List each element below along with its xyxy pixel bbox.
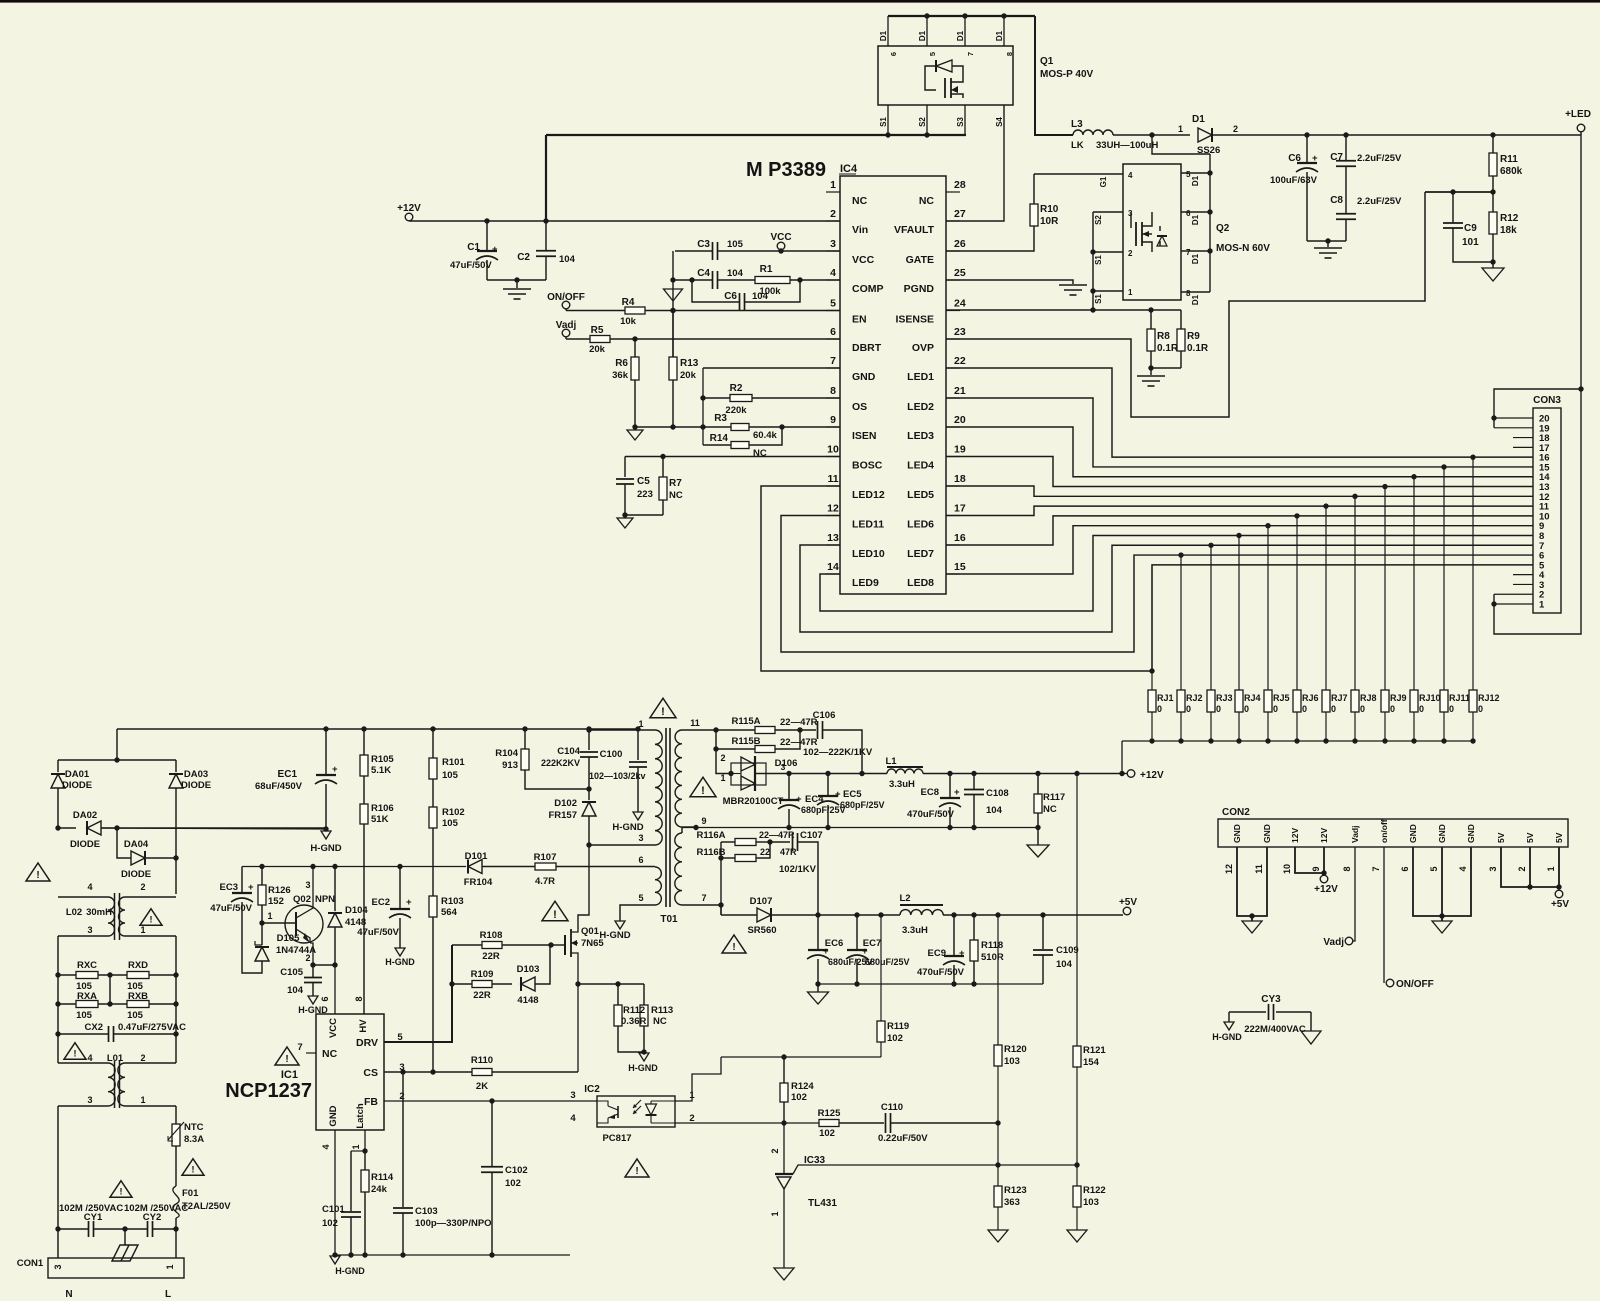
pin 16 LED7 [946, 544, 960, 546]
wire primary return to H-GND [101, 828, 326, 829]
wire CON2 pin 7 on/off [1383, 847, 1385, 983]
ground (CY3) [1301, 1031, 1321, 1044]
svg-text:NTC: NTC [184, 1122, 204, 1133]
svg-text:R106: R106 [371, 803, 394, 814]
svg-text:RXB: RXB [128, 991, 148, 1002]
svg-text:1: 1 [830, 179, 836, 191]
diode D107 SR560 [721, 914, 757, 916]
capacitor EC1 68uF/450V [323, 726, 328, 731]
svg-text:D1: D1 [1191, 294, 1200, 305]
svg-text:PGND: PGND [904, 283, 935, 295]
wire H-GND return line [335, 1254, 570, 1256]
svg-text:7: 7 [830, 355, 836, 367]
wire Q1 right rail to L3 [1035, 16, 1073, 135]
resistor R126 152 [259, 864, 264, 869]
wire PC817 pin2 to R125 [675, 1122, 819, 1124]
Q2 body diode [1159, 226, 1161, 231]
svg-text:RJ5: RJ5 [1273, 693, 1290, 703]
svg-text:2: 2 [1233, 124, 1238, 134]
resistor R115B 22-47R [715, 730, 717, 749]
svg-text:R114: R114 [371, 1172, 394, 1183]
svg-text:EC2: EC2 [372, 897, 390, 908]
svg-text:DA01: DA01 [65, 769, 90, 780]
wire L01 left down to CY1 [57, 1106, 59, 1229]
ground (output caps) [1314, 247, 1342, 249]
capacitor EC2 47uF/50V [397, 864, 402, 869]
resistor R102 105 [432, 779, 434, 807]
svg-text:CON2: CON2 [1222, 807, 1250, 818]
svg-text:R3: R3 [714, 413, 727, 424]
wire DA bridge top rail [58, 759, 176, 761]
svg-text:680pF/25V: 680pF/25V [801, 805, 846, 815]
svg-text:0: 0 [1390, 704, 1395, 714]
svg-text:DA03: DA03 [184, 769, 208, 780]
svg-text:1: 1 [638, 719, 643, 729]
svg-text:1: 1 [1128, 288, 1133, 297]
pin 1 NC [826, 191, 840, 193]
svg-text:MOS-N 60V: MOS-N 60V [1216, 243, 1270, 254]
pin 23 OVP [946, 338, 960, 340]
svg-text:+: + [492, 244, 498, 255]
capacitor EC5 680pF/25V [825, 771, 830, 776]
svg-text:GND: GND [1466, 824, 1476, 843]
svg-text:EC9: EC9 [928, 948, 946, 959]
svg-text:17: 17 [954, 503, 966, 515]
pin 27 VFAULT [946, 220, 960, 222]
svg-text:R103: R103 [441, 896, 464, 907]
wire 5V ground line [818, 983, 1043, 985]
H-GND arrow (T01 pin5) [615, 921, 625, 929]
svg-text:ISEN: ISEN [852, 430, 877, 442]
capacitor C102 102 [491, 1101, 493, 1166]
svg-text:R124: R124 [791, 1081, 814, 1092]
svg-text:24k: 24k [371, 1184, 388, 1195]
svg-text:28: 28 [954, 179, 966, 191]
svg-text:GND: GND [328, 1105, 339, 1126]
H-GND arrow (return line) [330, 1256, 340, 1264]
resistor R106 51K [363, 776, 365, 804]
svg-text:2.2uF/25V: 2.2uF/25V [1357, 196, 1402, 207]
svg-text:!: ! [36, 870, 39, 881]
svg-text:100p—330P/NPO: 100p—330P/NPO [415, 1218, 492, 1229]
svg-text:20k: 20k [680, 370, 697, 381]
H-GND arrow (C105) [308, 996, 318, 1004]
svg-text:N: N [65, 1289, 72, 1300]
svg-text:TL431: TL431 [808, 1198, 837, 1209]
svg-text:36k: 36k [612, 370, 629, 381]
svg-text:!: ! [150, 914, 153, 924]
resistor RJ12 0 [1472, 457, 1474, 690]
resistor R105 5.1K [361, 726, 366, 731]
svg-text:9: 9 [1311, 866, 1321, 871]
svg-text:DIODE: DIODE [62, 780, 92, 791]
wire LED8 pin15 to CON3 pin9 [946, 526, 1533, 574]
svg-text:D1: D1 [1191, 175, 1200, 186]
ground (PGND) [1059, 284, 1087, 286]
svg-text:3.3uH: 3.3uH [889, 779, 915, 790]
svg-text:7: 7 [701, 893, 706, 903]
svg-text:!: ! [74, 1048, 77, 1058]
svg-text:2: 2 [140, 1053, 145, 1063]
svg-text:H-GND: H-GND [1212, 1032, 1242, 1042]
svg-text:27: 27 [954, 208, 966, 220]
svg-text:L2: L2 [899, 893, 910, 904]
wire ISENSE pin24 bus [946, 309, 1181, 311]
svg-text:MBR20100CT: MBR20100CT [723, 796, 784, 807]
svg-text:7: 7 [1371, 866, 1381, 871]
ground (R123) [988, 1230, 1008, 1242]
svg-text:LED10: LED10 [852, 548, 885, 560]
svg-text:R12: R12 [1500, 213, 1519, 224]
svg-text:60.4k: 60.4k [753, 430, 777, 441]
capacitor C103 100p-330P/NPO [402, 1072, 404, 1207]
resistor R104 913 [522, 726, 527, 731]
transistor Q02 NPN [285, 905, 323, 943]
svg-text:0: 0 [1273, 704, 1278, 714]
pin 7 GND [826, 367, 840, 369]
pin 28 NC [946, 191, 960, 193]
svg-text:0: 0 [1331, 704, 1336, 714]
svg-text:0: 0 [1478, 704, 1483, 714]
wire T01 pin7 to D107 [720, 905, 722, 915]
wire C3/C4 ground vertical [672, 251, 674, 357]
svg-text:F01: F01 [182, 1188, 199, 1199]
svg-text:C5: C5 [637, 476, 650, 487]
terminal ON/OFF (CON2) [1386, 979, 1394, 987]
svg-text:LED9: LED9 [852, 577, 879, 589]
svg-text:33UH—100uH: 33UH—100uH [1096, 140, 1158, 151]
H-GND arrow (CY3) [1224, 1022, 1234, 1030]
svg-text:1: 1 [1546, 866, 1556, 871]
svg-text:R115A: R115A [731, 716, 760, 727]
wire gate node [548, 942, 553, 947]
svg-text:NC: NC [669, 490, 683, 501]
wire CON2 pins 3/2/1 5V [1501, 847, 1559, 887]
resistor R123 363 [997, 1165, 999, 1186]
svg-text:1: 1 [267, 911, 272, 921]
svg-text:SR560: SR560 [747, 925, 776, 936]
resistor R103 564 [429, 896, 437, 917]
wire OVP divider to pin23 [946, 192, 1425, 417]
svg-text:16: 16 [954, 532, 966, 544]
svg-text:R112: R112 [623, 1005, 645, 1016]
resistor RJ6 0 [1296, 516, 1298, 690]
pin 13 LED10 [826, 544, 840, 546]
svg-text:G1: G1 [1099, 176, 1108, 187]
svg-text:102/1KV: 102/1KV [779, 864, 817, 875]
svg-text:MOS-P 40V: MOS-P 40V [1040, 69, 1093, 80]
svg-text:5: 5 [830, 298, 836, 310]
wire RX mid junction [109, 975, 111, 1004]
svg-text:6: 6 [320, 996, 330, 1001]
svg-text:R105: R105 [371, 754, 394, 765]
svg-text:C107: C107 [800, 830, 823, 841]
wire +12V rail to IC pin2 [409, 220, 840, 222]
resistor R119 102 (pull-up) [878, 912, 883, 917]
svg-text:Q1: Q1 [1040, 56, 1054, 67]
svg-text:100uF/63V: 100uF/63V [1270, 175, 1318, 186]
svg-text:Vadj: Vadj [1350, 826, 1360, 843]
capacitor C107 102/1KV [770, 841, 790, 843]
svg-text:D103: D103 [517, 964, 540, 975]
svg-text:104: 104 [986, 805, 1003, 816]
svg-text:+LED: +LED [1565, 109, 1591, 120]
svg-text:GATE: GATE [906, 254, 934, 266]
svg-text:680uF/25V: 680uF/25V [865, 957, 910, 967]
svg-text:H-GND: H-GND [310, 843, 341, 854]
svg-text:3.3uH: 3.3uH [902, 925, 928, 936]
svg-text:+: + [248, 882, 254, 893]
svg-text:!: ! [192, 1164, 195, 1174]
svg-text:105: 105 [727, 239, 744, 250]
capacitor C104 222K2KV [586, 726, 591, 731]
svg-text:BOSC: BOSC [852, 460, 883, 472]
H-GND arrow (C100) [633, 812, 643, 820]
svg-text:510R: 510R [981, 952, 1004, 963]
capacitor C1 47uF/50V [484, 218, 489, 223]
svg-text:Vin: Vin [852, 224, 868, 236]
ground (C5/R7) [617, 518, 633, 528]
svg-text:NC: NC [919, 195, 935, 207]
svg-text:Q2: Q2 [1216, 223, 1230, 234]
wire LED5 pin18 to CON3 pin12 [946, 486, 1533, 496]
svg-text:0: 0 [1419, 704, 1424, 714]
svg-text:18: 18 [954, 473, 966, 485]
ground (TL431) [774, 1268, 794, 1280]
svg-text:!: ! [635, 1166, 638, 1177]
svg-text:COMP: COMP [852, 283, 884, 295]
capacitor EC6 680uF/25V [817, 915, 819, 950]
svg-text:S1: S1 [1094, 294, 1103, 304]
svg-text:6: 6 [1400, 866, 1410, 871]
svg-text:12: 12 [1224, 864, 1234, 874]
svg-text:HV: HV [358, 1019, 369, 1033]
wire LED9 pin14 wrap to CON3 pin8 [820, 535, 1533, 611]
svg-text:CX2: CX2 [85, 1022, 103, 1033]
svg-text:15: 15 [954, 561, 966, 573]
svg-text:R110: R110 [471, 1055, 493, 1066]
svg-text:R10: R10 [1040, 204, 1059, 215]
svg-text:T01: T01 [660, 914, 678, 925]
wire LED1 pin22 to CON3 pin16 [946, 368, 1533, 457]
svg-text:D101: D101 [465, 851, 488, 862]
resistor R110 2K [472, 1069, 492, 1076]
svg-text:0: 0 [1302, 704, 1307, 714]
svg-text:R122: R122 [1083, 1185, 1106, 1196]
resistor R122 103 [1076, 1165, 1078, 1186]
svg-text:23: 23 [954, 326, 966, 338]
svg-text:NCP1237: NCP1237 [225, 1080, 312, 1102]
svg-text:VCC: VCC [328, 1018, 339, 1038]
svg-text:NC: NC [852, 195, 868, 207]
svg-text:30mH: 30mH [86, 907, 112, 918]
resistor RXC 105 [58, 974, 76, 976]
capacitor C8 2.2uF/25V [1336, 213, 1356, 215]
svg-text:R8: R8 [1157, 331, 1170, 342]
svg-text:24: 24 [954, 298, 966, 310]
diode D103 4148 [521, 977, 535, 991]
warning symbol [182, 1159, 204, 1176]
ground (R12/C9) [1482, 268, 1504, 281]
svg-text:R123: R123 [1004, 1185, 1027, 1196]
svg-text:D1: D1 [918, 30, 927, 41]
svg-text:S3: S3 [956, 117, 965, 127]
svg-text:5V: 5V [1525, 832, 1535, 843]
svg-text:IC2: IC2 [584, 1084, 600, 1095]
svg-text:LED11: LED11 [852, 519, 884, 531]
svg-text:12: 12 [827, 503, 839, 515]
svg-text:R116A: R116A [696, 830, 725, 841]
warning symbol [140, 909, 162, 926]
svg-text:13: 13 [827, 532, 839, 544]
Q1 internal mosfet symbol [935, 60, 937, 72]
svg-text:11: 11 [827, 473, 838, 485]
svg-text:154: 154 [1083, 1057, 1100, 1068]
svg-text:47R: 47R [780, 847, 797, 857]
resistor R117 NC [1035, 771, 1040, 776]
svg-text:5V: 5V [1554, 832, 1564, 843]
snubber R116A 22-47R [721, 841, 735, 843]
ground (ISEN) [627, 430, 643, 440]
svg-text:0.47uF/275VAC: 0.47uF/275VAC [118, 1022, 186, 1033]
resistor R108 22R [452, 944, 482, 946]
svg-text:10: 10 [1282, 864, 1292, 874]
svg-text:10: 10 [827, 444, 839, 456]
svg-text:S1: S1 [879, 117, 888, 127]
svg-text:R113: R113 [651, 1005, 673, 1016]
terminal +5V (CON2) [1555, 890, 1563, 898]
svg-text:Vadj: Vadj [1323, 937, 1344, 948]
capacitor C5 223 [624, 457, 626, 478]
resistor R112 0.36R [617, 984, 619, 1005]
svg-text:RXD: RXD [128, 960, 148, 971]
svg-text:6: 6 [889, 52, 898, 56]
svg-text:152: 152 [268, 896, 284, 907]
svg-text:+: + [959, 948, 965, 959]
svg-text:C108: C108 [986, 788, 1009, 799]
shunt reg IC33 TL431 [781, 1120, 786, 1125]
pin 5 EN [826, 310, 840, 312]
svg-text:D1: D1 [879, 30, 888, 41]
svg-text:3: 3 [638, 833, 643, 843]
svg-text:R1: R1 [760, 264, 773, 275]
resistor R107 4.7R [535, 863, 556, 870]
resistor R2 220k [700, 395, 705, 400]
resistor RJ5 0 [1267, 526, 1269, 690]
pin 6 DBRT [826, 338, 840, 340]
svg-text:R7: R7 [669, 478, 682, 489]
wire CON3 pins1/2 to +LED [1494, 389, 1581, 634]
svg-text:0: 0 [1157, 704, 1162, 714]
svg-text:+: + [823, 946, 829, 957]
svg-text:L: L [165, 1289, 171, 1300]
svg-text:NC: NC [322, 1048, 338, 1060]
wire Latch pin [364, 1130, 366, 1151]
capacitor C6 104 (comp) [689, 277, 694, 282]
wire HV bulk rail [117, 728, 638, 730]
capacitor C6 100uF/63V (output) [1304, 132, 1309, 137]
svg-text:12V: 12V [1319, 828, 1329, 843]
svg-text:H-GND: H-GND [385, 957, 415, 967]
resistor R109 22R [449, 981, 454, 986]
transistor Q2 MOS-N 60V (dual package) [1123, 164, 1181, 300]
svg-text:913: 913 [502, 760, 518, 771]
svg-text:M P3389: M P3389 [746, 159, 826, 181]
pin 12 LED11 [826, 515, 840, 517]
svg-text:102—222K/1KV: 102—222K/1KV [803, 747, 873, 758]
resistor R12 18k [1490, 189, 1495, 194]
wire GND pin to H-GND line [334, 1130, 336, 1255]
svg-text:4: 4 [321, 1144, 331, 1149]
wire CON2 pins 12/11 GND [1237, 847, 1267, 916]
wire LED10 pin13 wrap to CON3 pin7 [800, 545, 1533, 632]
svg-text:1: 1 [1178, 124, 1183, 134]
svg-text:102: 102 [505, 1178, 521, 1189]
wire LED3 pin20 to CON3 pin14 [946, 427, 1533, 477]
svg-text:0.1R: 0.1R [1157, 343, 1179, 354]
svg-text:R104: R104 [495, 748, 518, 759]
svg-text:4.7R: 4.7R [535, 876, 555, 887]
wire C5/R7 ground [625, 514, 663, 516]
svg-text:R119: R119 [887, 1021, 909, 1032]
svg-text:C102: C102 [505, 1165, 528, 1176]
svg-text:RJ11: RJ11 [1449, 693, 1470, 703]
svg-text:5: 5 [928, 52, 937, 56]
ground (R122) [1067, 1230, 1087, 1242]
svg-text:GND: GND [1262, 824, 1272, 843]
resistor R101 105 [430, 726, 435, 731]
svg-text:H-GND: H-GND [612, 822, 643, 833]
svg-text:5: 5 [1429, 866, 1439, 871]
svg-text:C6: C6 [1288, 153, 1301, 164]
resistor RJ1 0 [1151, 565, 1153, 690]
svg-text:102: 102 [322, 1218, 338, 1229]
svg-text:R126: R126 [268, 885, 291, 896]
wire LED7 pin16 to CON3 pin10 [946, 516, 1533, 545]
pin 25 PGND [946, 279, 960, 281]
svg-text:0: 0 [1244, 704, 1249, 714]
fuse F01 T2AL/250V [175, 1146, 177, 1186]
wire C1-C2 bottom + ground [487, 279, 546, 281]
svg-text:NPN: NPN [315, 894, 335, 905]
svg-text:FB: FB [364, 1096, 378, 1108]
svg-text:RJ2: RJ2 [1186, 693, 1203, 703]
pin 9 ISEN [826, 426, 840, 428]
wire LED4 pin19 to CON3 pin13 [946, 457, 1533, 487]
svg-text:+: + [954, 787, 960, 798]
svg-text:R14: R14 [710, 433, 729, 444]
svg-text:D1: D1 [1191, 253, 1200, 264]
wire PGND pin25 to ground [946, 280, 1073, 284]
svg-text:RJ3: RJ3 [1216, 693, 1233, 703]
svg-text:L01: L01 [107, 1053, 124, 1064]
svg-text:LED7: LED7 [907, 548, 934, 560]
svg-text:0: 0 [1449, 704, 1454, 714]
svg-text:D107: D107 [750, 896, 773, 907]
resistor RXB 105 [127, 1001, 149, 1008]
svg-text:C103: C103 [415, 1206, 438, 1217]
svg-text:D1: D1 [995, 30, 1004, 41]
svg-text:C3: C3 [697, 239, 710, 250]
svg-text:3: 3 [53, 1264, 63, 1269]
svg-text:Q02: Q02 [293, 894, 311, 905]
wire COMP pin4 line [675, 279, 712, 281]
wire VCC pin3 line [675, 250, 712, 252]
svg-text:0.22uF/50V: 0.22uF/50V [878, 1133, 928, 1144]
aux supply line (line A) [242, 866, 466, 868]
svg-text:VCC: VCC [852, 254, 875, 266]
resistor R113 NC [643, 984, 645, 1005]
